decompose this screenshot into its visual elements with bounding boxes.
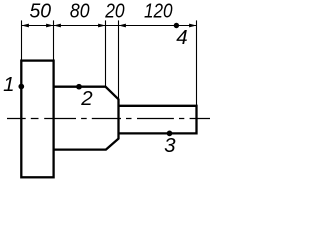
svg-text:120: 120 bbox=[144, 0, 173, 23]
point 4 dot bbox=[174, 23, 179, 28]
extension line at x=21.5 bbox=[21, 20, 23, 60]
svg-text:2: 2 bbox=[80, 87, 93, 110]
svg-text:1: 1 bbox=[3, 73, 14, 96]
point 2 dot bbox=[76, 84, 82, 90]
point 1 dot bbox=[18, 84, 24, 90]
arrowhead left of dim 120 bbox=[119, 24, 126, 28]
small cylinder outline (right rectangle) bbox=[119, 106, 197, 134]
point 3 dot bbox=[167, 131, 173, 137]
extension line at x=118.5 bbox=[118, 20, 120, 99]
extension line at x=196.5 bbox=[196, 20, 198, 105]
arrowhead right of dim 50 bbox=[46, 24, 53, 28]
flange outline (left large rectangle) bbox=[21, 61, 53, 178]
centerline (dash-dot axis) bbox=[7, 118, 210, 120]
arrowhead right of dim 80 bbox=[98, 24, 105, 28]
arrowhead right of dim 120 bbox=[189, 24, 196, 28]
svg-text:4: 4 bbox=[176, 26, 187, 49]
dimension line bbox=[22, 25, 197, 27]
svg-text:3: 3 bbox=[164, 134, 176, 157]
arrowhead left of dim 50 bbox=[22, 24, 29, 28]
svg-text:80: 80 bbox=[70, 0, 90, 23]
extension line at x=105.5 bbox=[105, 20, 107, 86]
mid section outline with chamfers bbox=[54, 87, 119, 150]
svg-text:20: 20 bbox=[104, 0, 125, 23]
extension line at x=53.5 bbox=[53, 20, 55, 60]
arrowhead left of dim 80 bbox=[54, 24, 61, 28]
svg-text:50: 50 bbox=[30, 0, 52, 23]
